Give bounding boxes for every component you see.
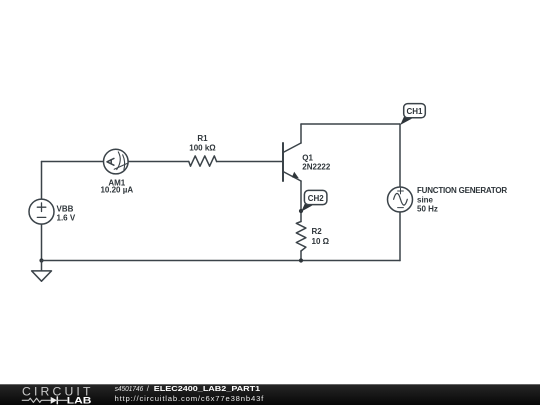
probe CH1 xyxy=(400,104,425,125)
svg-text:sine: sine xyxy=(417,196,434,205)
ground xyxy=(32,261,52,282)
svg-text:VBB: VBB xyxy=(57,204,74,213)
svg-text:http://circuitlab.com/c6x77e38: http://circuitlab.com/c6x77e38nb43f xyxy=(115,394,265,403)
wire xyxy=(301,123,400,125)
node junction xyxy=(299,258,303,262)
wire xyxy=(41,162,43,200)
resistor R1 xyxy=(189,134,217,166)
svg-text:1.6 V: 1.6 V xyxy=(57,213,76,222)
svg-text:50 Hz: 50 Hz xyxy=(417,204,438,213)
svg-text:LAB: LAB xyxy=(67,396,92,405)
svg-text:100 kΩ: 100 kΩ xyxy=(189,144,216,153)
node junction xyxy=(39,258,43,262)
svg-text:10.20 µA: 10.20 µA xyxy=(100,186,133,195)
svg-text:R1: R1 xyxy=(197,134,208,143)
wire xyxy=(217,161,283,163)
resistor R2 xyxy=(296,222,329,252)
wire xyxy=(300,181,302,222)
svg-text:FUNCTION GENERATOR: FUNCTION GENERATOR xyxy=(417,186,507,195)
node CH2 junction xyxy=(299,209,303,213)
footer bar xyxy=(0,384,540,405)
wire xyxy=(399,124,401,187)
transistor Q1 xyxy=(283,143,331,181)
function generator V1 xyxy=(388,186,508,213)
svg-text:2N2222: 2N2222 xyxy=(302,163,331,172)
wire xyxy=(399,212,401,261)
svg-text:CH1: CH1 xyxy=(406,107,423,116)
probe CH2 xyxy=(301,190,327,211)
svg-text:Q1: Q1 xyxy=(302,153,313,162)
svg-text:CH2: CH2 xyxy=(308,194,325,203)
footer credits xyxy=(115,384,265,403)
CircuitLab logo xyxy=(22,385,92,405)
svg-text:R2: R2 xyxy=(312,227,323,236)
wire xyxy=(41,224,43,260)
wire xyxy=(128,161,189,163)
svg-text:s4501746 / ELEC2400_LAB2_PART1: s4501746 / ELEC2400_LAB2_PART1 xyxy=(115,384,261,393)
ammeter AM1 xyxy=(100,149,133,194)
svg-text:10 Ω: 10 Ω xyxy=(312,237,330,246)
wire xyxy=(300,251,302,261)
wire xyxy=(300,124,302,143)
wire xyxy=(42,161,104,163)
voltage source VBB xyxy=(29,199,76,224)
wire xyxy=(42,260,401,262)
